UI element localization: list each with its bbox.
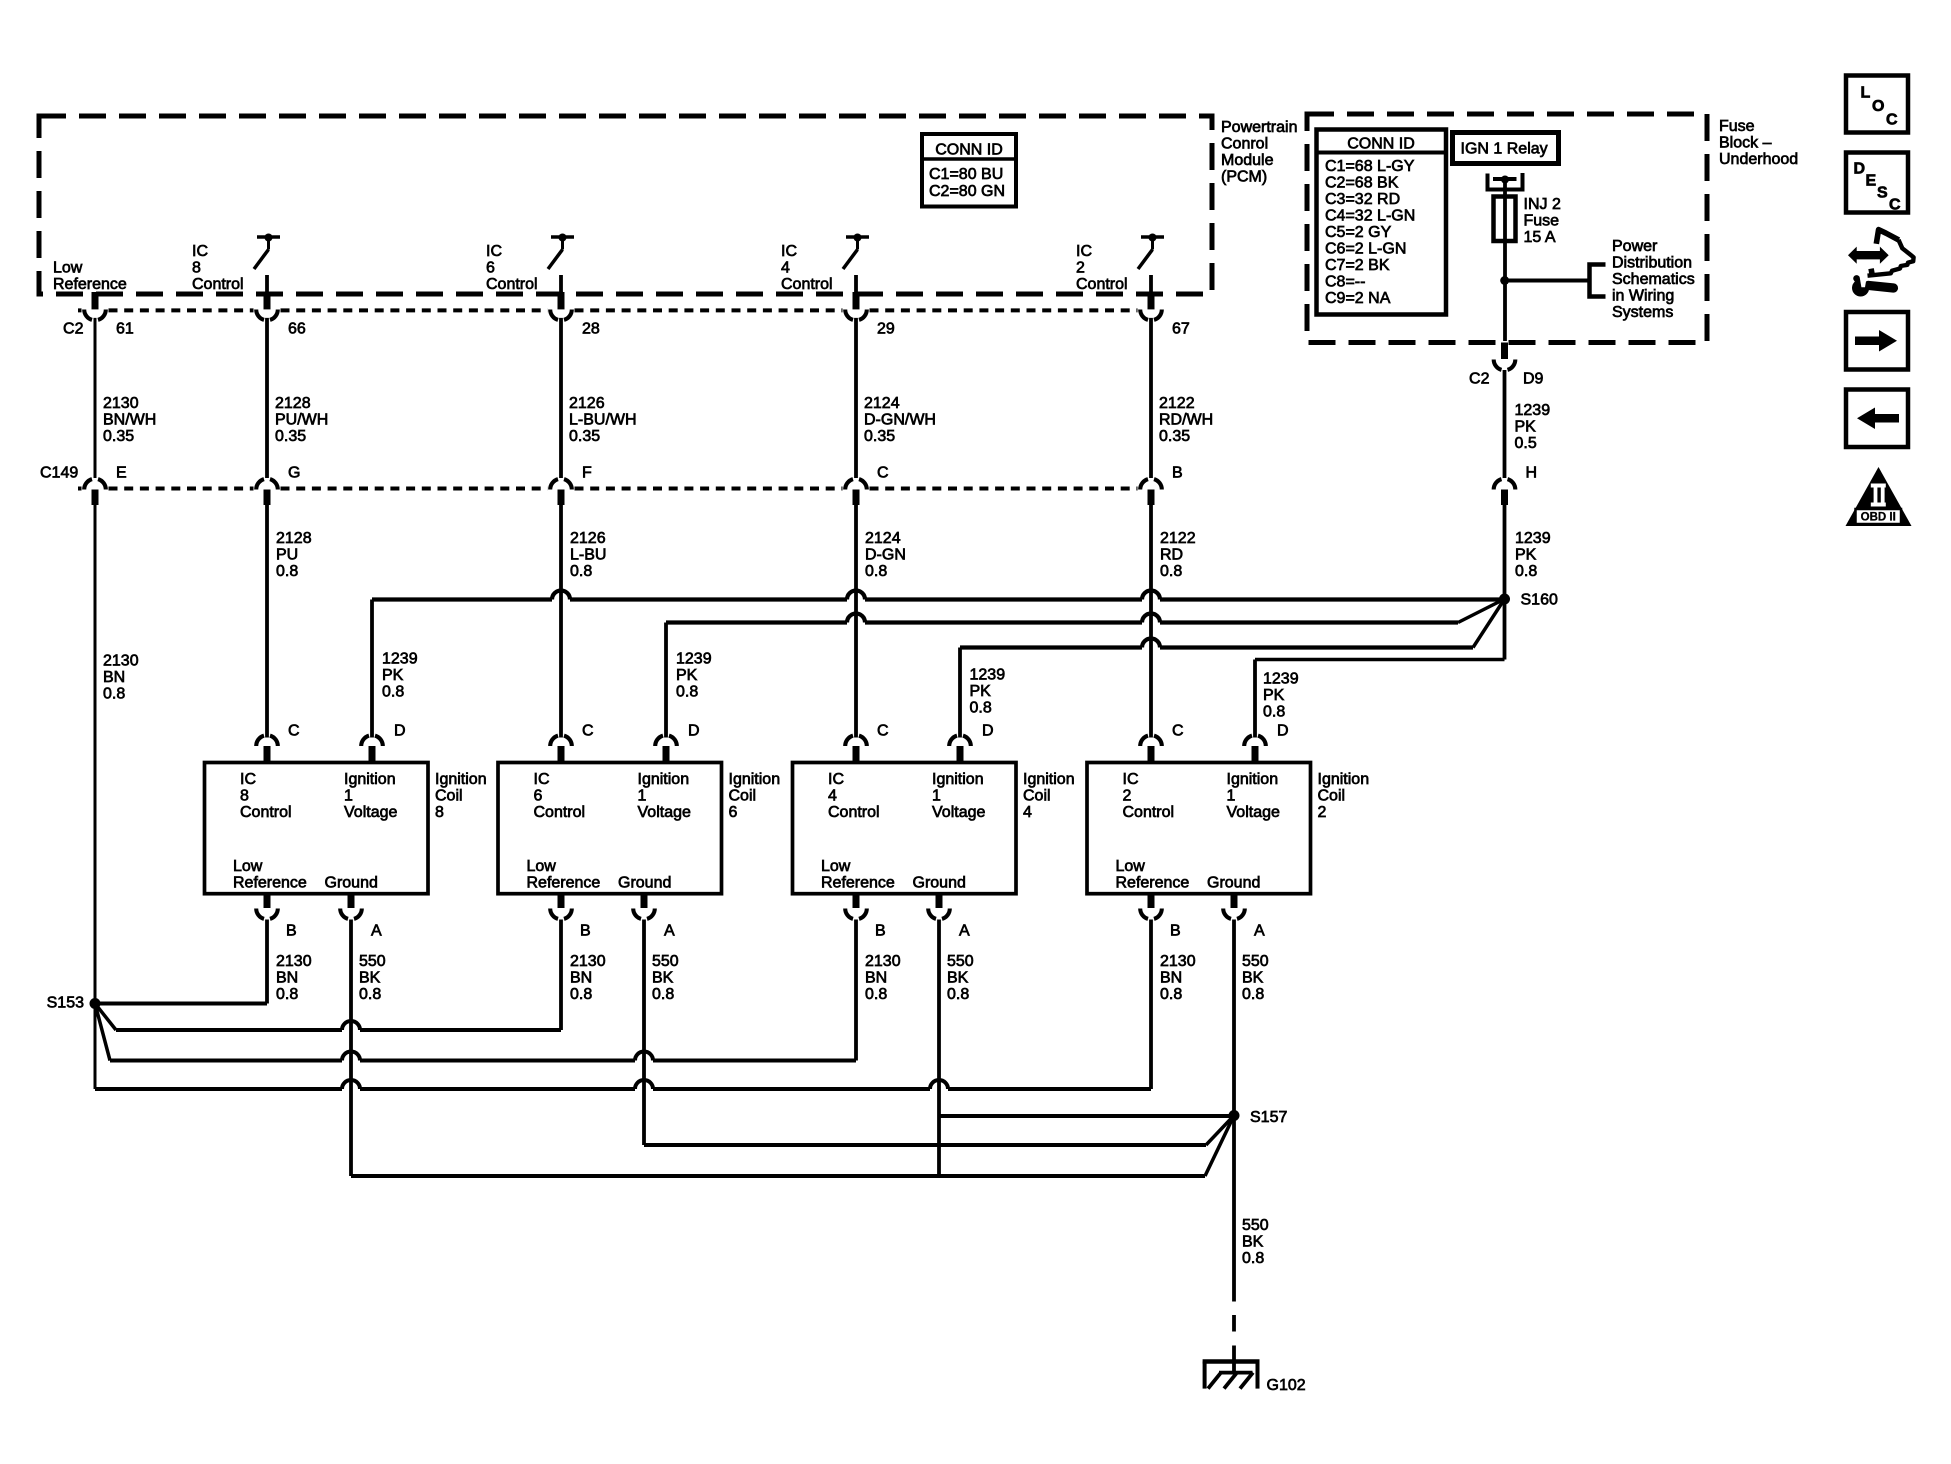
svg-text:C7=2 BK: C7=2 BK [1325,257,1390,274]
svg-text:0.8: 0.8 [676,684,698,701]
svg-text:C: C [1886,112,1898,129]
svg-text:0.8: 0.8 [276,986,298,1003]
wire 2128 PU 0.8 (to ignition coil 8 pin C) [265,505,269,738]
wire bus coil 8 ground to S157 [351,1174,1205,1178]
svg-text:BN: BN [570,970,592,987]
svg-text:Ignition: Ignition [1023,771,1075,788]
svg-text:1239: 1239 [970,667,1006,684]
connector coil 6 pin B [558,893,565,908]
svg-text:Coil: Coil [729,788,757,805]
svg-text:0.8: 0.8 [652,986,674,1003]
svg-text:IC: IC [1123,771,1139,788]
svg-text:Reference: Reference [233,875,307,892]
svg-text:Power: Power [1612,238,1658,255]
svg-text:IC: IC [828,771,844,788]
connector C2 pin 28 [558,292,565,309]
svg-text:550: 550 [1242,1217,1269,1234]
connector C2 pin 29 [853,292,860,309]
svg-text:S157: S157 [1250,1109,1287,1126]
svg-text:0.8: 0.8 [570,986,592,1003]
connector coil 8 pin C [256,736,278,746]
svg-text:L-BU/WH: L-BU/WH [569,412,637,429]
svg-text:B: B [286,923,297,940]
relay IGN 1 Relay box [1453,133,1559,164]
svg-text:OBD II: OBD II [1861,512,1896,524]
sidebar icon forward arrow [1846,312,1908,370]
svg-text:0.8: 0.8 [276,563,298,580]
svg-text:BN: BN [865,970,887,987]
connector coil 4 pin A [936,893,943,908]
svg-text:C6=2 L-GN: C6=2 L-GN [1325,241,1406,258]
svg-text:E: E [116,465,127,482]
wire 550 BK 0.8 coil 6 pin A [642,920,646,1146]
wire bus S153 to coil 4 pin B [95,1004,110,1061]
Fuse Block - Underhood dashed box [1307,114,1707,343]
svg-text:Voltage: Voltage [344,804,397,821]
svg-text:1: 1 [638,788,647,805]
svg-text:B: B [580,923,591,940]
connector coil 2 pin A [1231,893,1238,908]
svg-text:D-GN/WH: D-GN/WH [864,412,936,429]
svg-text:BN: BN [1160,970,1182,987]
svg-text:Ignition: Ignition [435,771,487,788]
svg-text:C149: C149 [40,465,78,482]
connector coil 6 pin C [550,736,572,746]
connector C149 pin G [256,479,278,489]
svg-text:1239: 1239 [382,651,418,668]
svg-text:A: A [1254,923,1265,940]
ignition coil 8 box [205,763,429,894]
svg-text:Control: Control [534,804,586,821]
wire 1239 PK bus to coil 4 [960,645,1473,649]
svg-text:Ignition: Ignition [344,771,396,788]
svg-text:2130: 2130 [865,953,901,970]
wire 1239 PK 0.5 [1503,370,1507,478]
svg-text:Low: Low [53,260,83,277]
wire 550 BK 0.8 S157 to G102 [1232,1116,1236,1302]
svg-text:2130: 2130 [276,953,312,970]
svg-text:C: C [582,723,594,740]
svg-text:C: C [1172,723,1184,740]
svg-text:L-BU: L-BU [570,547,606,564]
svg-text:C9=2 NA: C9=2 NA [1325,290,1391,307]
svg-text:550: 550 [359,953,386,970]
svg-text:4: 4 [1023,804,1032,821]
svg-text:2130: 2130 [570,953,606,970]
svg-text:B: B [875,923,886,940]
ignition coil 6 box [498,763,722,894]
connector C2 pin 66 [264,292,271,309]
svg-text:IC: IC [534,771,550,788]
ignition coil 2 box [1087,763,1311,894]
svg-text:Underhood: Underhood [1719,151,1798,168]
svg-text:S153: S153 [47,995,84,1012]
svg-text:Coil: Coil [1023,788,1051,805]
svg-text:Module: Module [1221,152,1274,169]
svg-text:29: 29 [877,321,895,338]
svg-text:Voltage: Voltage [638,804,691,821]
svg-text:RD: RD [1160,547,1183,564]
sidebar icon OBD II [1846,467,1912,526]
svg-text:2128: 2128 [275,395,311,412]
svg-text:0.35: 0.35 [275,428,306,445]
svg-text:(PCM): (PCM) [1221,169,1267,186]
connector coil 8 pin A [348,893,355,908]
svg-text:RD/WH: RD/WH [1159,412,1213,429]
svg-text:C: C [288,723,300,740]
svg-text:IC: IC [486,243,502,260]
svg-text:1: 1 [932,788,941,805]
svg-text:0.8: 0.8 [570,563,592,580]
svg-text:Reference: Reference [821,875,895,892]
svg-text:0.8: 0.8 [1242,1250,1264,1267]
connector row C149 dotted line [78,487,1138,491]
svg-text:61: 61 [116,321,134,338]
svg-text:2126: 2126 [569,395,605,412]
connector C2 pin 61 [92,292,99,309]
wire bus S153 to coil 6 pin B [95,1004,116,1031]
svg-text:1239: 1239 [1515,530,1551,547]
svg-text:L: L [1861,85,1871,102]
svg-text:2126: 2126 [570,530,606,547]
svg-text:C1=80 BU: C1=80 BU [929,166,1003,183]
svg-text:0.8: 0.8 [1515,563,1537,580]
svg-text:PK: PK [1515,547,1537,564]
svg-text:G: G [288,465,300,482]
svg-text:0.8: 0.8 [1263,704,1285,721]
connector C149 pin B [1140,479,1162,489]
wire 2128 PU/WH 0.35 [265,318,269,478]
svg-text:Ground: Ground [618,875,671,892]
svg-text:0.35: 0.35 [103,428,134,445]
connector coil 8 pin D [361,736,383,746]
svg-text:Ground: Ground [325,875,378,892]
wire 550 BK 0.8 coil 4 pin A [937,920,941,1177]
svg-text:Voltage: Voltage [932,804,985,821]
svg-text:BK: BK [947,970,969,987]
svg-text:8: 8 [240,788,249,805]
svg-text:Coil: Coil [1318,788,1346,805]
wire 2122 RD 0.8 (to ignition coil 2 pin C) [1149,505,1153,738]
svg-text:Control: Control [1076,276,1128,293]
svg-text:Schematics: Schematics [1612,271,1695,288]
wire 2126 L-BU 0.8 (to ignition coil 6 pin C) [559,505,563,738]
svg-text:D: D [982,723,994,740]
svg-text:Low: Low [1116,858,1146,875]
svg-text:66: 66 [288,321,306,338]
fuse INJ 2 Fuse 15 A [1494,197,1516,242]
svg-text:Control: Control [828,804,880,821]
svg-text:BN: BN [276,970,298,987]
svg-text:Fuse: Fuse [1719,118,1755,135]
svg-text:A: A [664,923,675,940]
svg-text:0.8: 0.8 [970,700,992,717]
connector coil 4 pin B [853,893,860,908]
svg-text:CONN ID: CONN ID [935,142,1003,159]
switch IC 8 Control (PCM driver) [257,235,280,239]
svg-text:B: B [1170,923,1181,940]
wire fuse output through block border [1503,281,1507,342]
svg-text:IC: IC [192,243,208,260]
svg-text:0.35: 0.35 [864,428,895,445]
svg-text:C1=68 L-GY: C1=68 L-GY [1325,158,1415,175]
svg-text:8: 8 [435,804,444,821]
svg-text:BK: BK [1242,1234,1264,1251]
svg-text:INJ 2: INJ 2 [1524,196,1561,213]
wire 2130 BN 0.8 coil 4 pin B [854,920,858,1061]
svg-text:G102: G102 [1267,1377,1306,1394]
svg-text:C4=32 L-GN: C4=32 L-GN [1325,208,1415,225]
svg-text:Ignition: Ignition [729,771,781,788]
wire 2126 L-BU/WH 0.35 [559,318,563,478]
svg-text:Control: Control [192,276,244,293]
wire bus S153 to coil 2 pin B [94,1004,97,1090]
svg-text:550: 550 [652,953,679,970]
svg-text:H: H [1526,465,1538,482]
svg-text:Ignition: Ignition [932,771,984,788]
svg-text:D: D [1854,161,1866,178]
svg-text:6: 6 [534,788,543,805]
connector coil 2 pin C [1140,736,1162,746]
svg-text:2130: 2130 [103,395,139,412]
svg-text:PK: PK [970,683,992,700]
svg-text:Powertrain: Powertrain [1221,119,1297,136]
svg-text:Systems: Systems [1612,304,1673,321]
svg-text:2: 2 [1318,804,1327,821]
svg-text:C: C [1889,197,1901,214]
svg-text:0.8: 0.8 [1160,563,1182,580]
svg-text:BK: BK [652,970,674,987]
sidebar icon LOC [1846,76,1908,133]
connector coil 6 pin D [655,736,677,746]
svg-text:A: A [959,923,970,940]
svg-text:0.8: 0.8 [103,686,125,703]
svg-text:0.8: 0.8 [865,986,887,1003]
svg-text:D-GN: D-GN [865,547,906,564]
svg-text:Control: Control [240,804,292,821]
wire 2122 RD/WH 0.35 [1149,318,1153,478]
wire 550 BK 0.8 coil 2 pin A [1232,920,1236,1116]
connector coil 2 pin D [1244,736,1266,746]
svg-text:PK: PK [1263,687,1285,704]
svg-text:0.8: 0.8 [865,563,887,580]
svg-text:D: D [1277,723,1289,740]
connector coil 2 pin B [1148,893,1155,908]
svg-text:0.5: 0.5 [1515,435,1537,452]
svg-text:Control: Control [486,276,538,293]
switch IC 6 Control (PCM driver) [551,235,574,239]
node S157 splice [1229,1110,1240,1121]
svg-text:2124: 2124 [865,530,901,547]
svg-text:IC: IC [1076,243,1092,260]
svg-text:BK: BK [359,970,381,987]
connector C2 pin D9 (fuse block) [1501,343,1508,360]
svg-text:8: 8 [192,260,201,277]
svg-text:2124: 2124 [864,395,900,412]
svg-text:PU/WH: PU/WH [275,412,328,429]
svg-text:A: A [371,923,382,940]
wire 1239 PK bus to coil 8 (node S160 branch) [372,597,1505,601]
svg-text:Conrol: Conrol [1221,136,1268,153]
connector C149 pin C [845,479,867,489]
svg-text:0.8: 0.8 [359,986,381,1003]
svg-text:Control: Control [1123,804,1175,821]
svg-text:1239: 1239 [676,651,712,668]
svg-text:C2=80 GN: C2=80 GN [929,183,1005,200]
connector coil 6 pin A [641,893,648,908]
svg-text:S: S [1877,185,1888,202]
wire bus coil 6 ground to S157 [644,1143,1206,1147]
svg-text:1: 1 [1227,788,1236,805]
svg-text:BK: BK [1242,970,1264,987]
sidebar icon vehicle schematic (car with arrows and wrench) [1848,247,1889,264]
connector coil 8 pin B [264,893,271,908]
svg-text:4: 4 [828,788,837,805]
ignition coil 4 box [793,763,1017,894]
wire bus S153 to coil 8 pin B [95,1002,267,1006]
wire 2130 BN/WH 0.35 [94,318,97,478]
wire 1239 PK bus to coil 6 [666,620,1458,624]
connector row C2 (PCM) dotted line [78,308,1138,312]
svg-text:Fuse: Fuse [1524,213,1560,230]
svg-text:D: D [394,723,406,740]
svg-text:Reference: Reference [53,276,127,293]
wire bus coil 4 ground to S157 [939,1114,1234,1118]
svg-text:1239: 1239 [1263,671,1299,688]
svg-text:BN: BN [103,669,125,686]
svg-text:4: 4 [781,260,790,277]
wire 2130 BN 0.8 (low reference bus, left) [94,505,97,1004]
PCM CONN ID table [922,134,1016,207]
svg-text:D: D [688,723,700,740]
wire 2130 BN 0.8 coil 2 pin B [1149,920,1153,1090]
svg-text:IGN 1 Relay: IGN 1 Relay [1461,141,1548,158]
svg-text:2122: 2122 [1159,395,1195,412]
svg-text:28: 28 [582,321,600,338]
wire 1239 PK 0.8 to S160 [1503,505,1507,600]
connector coil 4 pin D [949,736,971,746]
ground G102 symbol [1203,1359,1260,1363]
PCM module box (Powertrain Control Module) [39,116,1212,294]
svg-text:PK: PK [1515,419,1537,436]
wire 550 BK 0.8 coil 8 pin A [349,920,353,1177]
svg-text:0.8: 0.8 [947,986,969,1003]
wire 2124 D-GN/WH 0.35 [854,318,858,478]
svg-text:15 A: 15 A [1524,229,1556,246]
svg-text:B: B [1172,465,1183,482]
svg-text:S160: S160 [1521,592,1558,609]
svg-text:6: 6 [729,804,738,821]
svg-text:Block –: Block – [1719,135,1772,152]
sidebar icon DESC [1846,153,1908,213]
svg-text:C2: C2 [63,321,84,338]
svg-text:0.35: 0.35 [569,428,600,445]
svg-text:C2: C2 [1469,371,1490,388]
junction to power distribution [1500,276,1509,285]
svg-text:Ground: Ground [1207,875,1260,892]
svg-text:2130: 2130 [103,653,139,670]
svg-text:0.8: 0.8 [382,684,404,701]
svg-text:2128: 2128 [276,530,312,547]
svg-text:Low: Low [233,858,263,875]
svg-text:C: C [877,465,889,482]
svg-text:67: 67 [1172,321,1190,338]
svg-text:D9: D9 [1523,371,1544,388]
svg-text:550: 550 [1242,953,1269,970]
svg-text:Low: Low [527,858,557,875]
svg-text:1239: 1239 [1515,402,1551,419]
svg-text:Reference: Reference [527,875,601,892]
svg-text:PK: PK [676,667,698,684]
svg-text:C5=2 GY: C5=2 GY [1325,224,1392,241]
svg-text:IC: IC [240,771,256,788]
svg-text:C: C [877,723,889,740]
connector coil 4 pin C [845,736,867,746]
sidebar icon back arrow [1846,390,1908,448]
wire 2130 BN 0.8 coil 6 pin B [559,920,563,1031]
svg-text:PK: PK [382,667,404,684]
svg-text:Voltage: Voltage [1227,804,1280,821]
svg-text:0.35: 0.35 [1159,428,1190,445]
svg-text:Ignition: Ignition [638,771,690,788]
svg-text:CONN ID: CONN ID [1347,136,1415,153]
svg-text:6: 6 [486,260,495,277]
svg-text:F: F [582,465,592,482]
svg-text:0.8: 0.8 [1160,986,1182,1003]
svg-text:Ignition: Ignition [1227,771,1279,788]
node S160 splice [1499,594,1510,605]
svg-text:Ignition: Ignition [1318,771,1370,788]
svg-text:Low: Low [821,858,851,875]
svg-text:1: 1 [344,788,353,805]
svg-text:C2=68 BK: C2=68 BK [1325,175,1399,192]
svg-text:in Wiring: in Wiring [1612,288,1674,305]
switch IC 4 Control (PCM driver) [846,235,869,239]
connector C2 pin 67 [1148,292,1155,309]
svg-text:C3=32 RD: C3=32 RD [1325,191,1400,208]
svg-text:C8=--: C8=-- [1325,274,1365,291]
svg-text:Reference: Reference [1116,875,1190,892]
svg-text:IC: IC [781,243,797,260]
svg-text:2130: 2130 [1160,953,1196,970]
svg-text:2: 2 [1076,260,1085,277]
wire 2124 D-GN 0.8 (to ignition coil 4 pin C) [854,505,858,738]
svg-text:BN/WH: BN/WH [103,412,156,429]
switch IC 2 Control (PCM driver) [1141,235,1164,239]
wire 2130 BN 0.8 coil 8 pin B [265,920,269,1004]
svg-text:Coil: Coil [435,788,463,805]
svg-text:O: O [1872,98,1884,115]
node S153 splice [90,998,101,1009]
svg-text:0.8: 0.8 [1242,986,1264,1003]
wire 1239 PK bus to coil 2 [1255,658,1505,662]
svg-text:2: 2 [1123,788,1132,805]
Fuse block CONN ID table [1317,130,1447,315]
svg-text:Control: Control [781,276,833,293]
svg-text:550: 550 [947,953,974,970]
svg-text:Distribution: Distribution [1612,255,1692,272]
connector C149 pin E [84,479,106,489]
relay output contact [1488,173,1523,190]
svg-text:Ground: Ground [913,875,966,892]
svg-text:PU: PU [276,547,298,564]
svg-text:E: E [1866,173,1877,190]
svg-text:2122: 2122 [1160,530,1196,547]
connector C149 pin F [550,479,572,489]
